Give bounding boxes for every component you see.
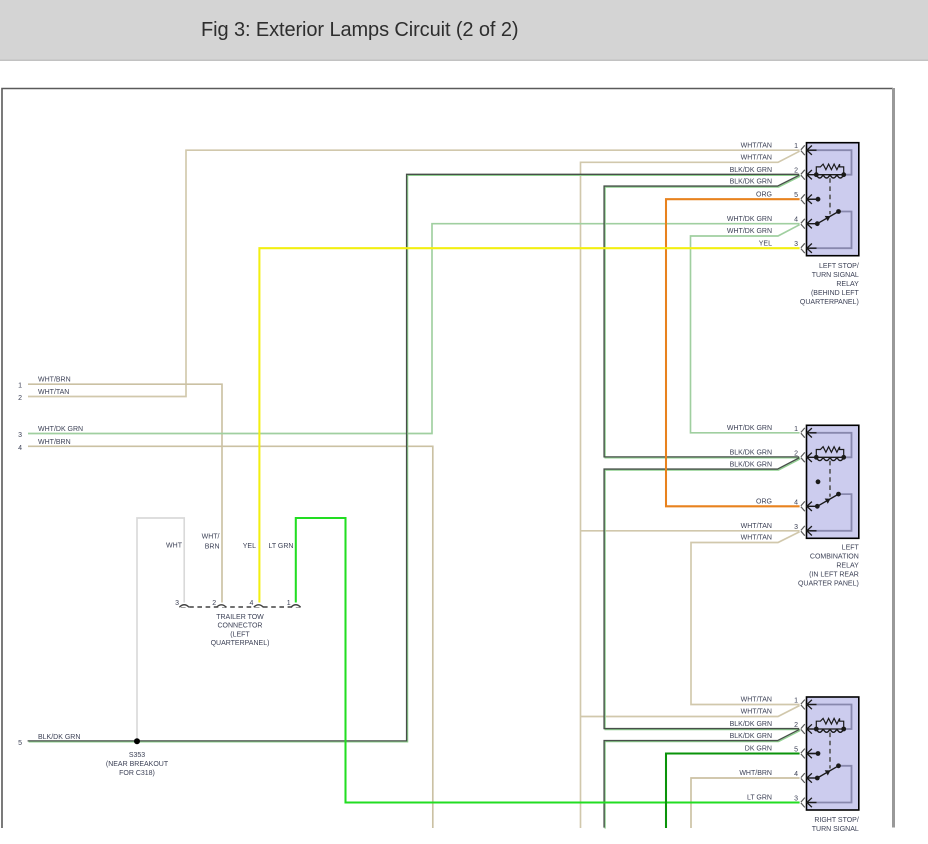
relay K1 LEFT STOP/TURN SIGNAL RELAY <box>807 143 859 256</box>
svg-text:WHT/TAN: WHT/TAN <box>741 535 772 542</box>
svg-text:1: 1 <box>794 143 798 150</box>
wire BLK/DK GRN left pin5 S353 to K1 pin2 <box>29 175 801 742</box>
svg-text:BRN: BRN <box>205 544 220 551</box>
svg-text:3: 3 <box>794 524 798 531</box>
pin connector <box>801 526 805 536</box>
svg-text:WHT/: WHT/ <box>202 534 220 541</box>
wire relay internal switch to pin3 <box>810 494 852 531</box>
svg-text:BLK/DK GRN: BLK/DK GRN <box>730 450 772 457</box>
svg-text:4: 4 <box>794 217 798 224</box>
svg-text:(IN LEFT REAR: (IN LEFT REAR <box>809 572 859 579</box>
svg-text:QUARTERPANEL): QUARTERPANEL) <box>800 299 859 306</box>
wire WHT/TAN bus to K2 pin3 <box>581 530 800 532</box>
wire relay internal pin1 to coil <box>810 705 852 730</box>
svg-text:4: 4 <box>249 600 253 607</box>
svg-text:QUARTERPANEL): QUARTERPANEL) <box>211 640 270 647</box>
pin connector <box>801 452 805 462</box>
svg-text:ORG: ORG <box>756 499 772 506</box>
svg-text:COMBINATION: COMBINATION <box>810 554 859 561</box>
svg-text:WHT/DK GRN: WHT/DK GRN <box>727 228 772 235</box>
svg-text:1: 1 <box>287 600 291 607</box>
relay NC contact dot <box>816 479 821 484</box>
pin connector <box>801 243 805 253</box>
svg-text:1: 1 <box>794 698 798 705</box>
wire WHT/TAN bus to K3 pin1 lower <box>581 706 800 717</box>
svg-text:2: 2 <box>212 600 216 607</box>
svg-text:TRAILER TOW: TRAILER TOW <box>216 614 264 621</box>
svg-text:YEL: YEL <box>243 543 256 550</box>
wire WHT/BRN left pin1 to trailer tow pin2 <box>28 384 222 602</box>
wire relay internal pin1 to coil <box>810 150 852 175</box>
relay coil <box>816 174 843 176</box>
relay K3 RIGHT STOP/TURN SIGNAL RELAY <box>807 697 859 810</box>
pin connector <box>801 219 805 229</box>
svg-text:3: 3 <box>794 241 798 248</box>
svg-text:5: 5 <box>794 192 798 199</box>
relay actuator dashed link <box>829 461 831 497</box>
wire relay internal pin1 to coil <box>810 433 852 458</box>
wire BLK/DK GRN K1 pin2 to K2 pin2 <box>605 176 800 458</box>
svg-text:(NEAR BREAKOUT: (NEAR BREAKOUT <box>106 761 169 768</box>
svg-text:BLK/DK GRN: BLK/DK GRN <box>730 179 772 186</box>
relay coil <box>816 728 843 730</box>
connector trailer tow dashed line <box>181 606 301 608</box>
svg-text:FOR C318): FOR C318) <box>119 770 155 777</box>
svg-text:WHT/DK GRN: WHT/DK GRN <box>727 425 772 432</box>
svg-text:WHT/TAN: WHT/TAN <box>741 697 772 704</box>
svg-text:4: 4 <box>794 771 798 778</box>
svg-text:RELAY: RELAY <box>836 281 859 288</box>
svg-text:ORG: ORG <box>756 191 772 198</box>
wire WHT/BRN left pin4 off-page <box>28 446 433 828</box>
wire LT GRN trailer tow pin1 to K3 pin3 <box>296 518 800 803</box>
wire WHT/BRN off-page to K3 pin4 <box>691 778 800 828</box>
relay NC contact dot <box>816 197 821 202</box>
trailer tow pin 3 <box>179 605 189 607</box>
pin connector <box>801 773 805 783</box>
svg-text:WHT/TAN: WHT/TAN <box>741 709 772 716</box>
svg-text:3: 3 <box>18 432 22 439</box>
svg-text:(BEHIND LEFT: (BEHIND LEFT <box>811 290 860 297</box>
relay switch <box>815 504 820 509</box>
svg-text:S353: S353 <box>129 752 145 759</box>
wire WHT trailer tow pin3 to S353 <box>137 518 184 741</box>
relay actuator dashed link <box>829 178 831 214</box>
svg-text:QUARTER PANEL): QUARTER PANEL) <box>798 581 859 588</box>
svg-text:WHT/TAN: WHT/TAN <box>741 523 772 530</box>
svg-text:TURN SIGNAL: TURN SIGNAL <box>812 272 859 279</box>
pin connector <box>801 428 805 438</box>
svg-text:BLK/DK GRN: BLK/DK GRN <box>38 734 80 741</box>
pin connector <box>801 749 805 759</box>
wire YEL trailer tow pin4 to K1 pin3 <box>259 248 799 602</box>
svg-text:WHT/TAN: WHT/TAN <box>741 155 772 162</box>
pin connector <box>801 194 805 204</box>
svg-text:BLK/DK GRN: BLK/DK GRN <box>730 721 772 728</box>
relay actuator dashed link <box>829 733 831 769</box>
svg-text:1: 1 <box>18 383 22 390</box>
svg-text:2: 2 <box>794 450 798 457</box>
svg-text:BLK/DK GRN: BLK/DK GRN <box>730 167 772 174</box>
svg-text:WHT/BRN: WHT/BRN <box>38 377 71 384</box>
svg-text:1: 1 <box>794 426 798 433</box>
wire relay internal switch to pin3 <box>810 766 852 803</box>
svg-text:WHT/TAN: WHT/TAN <box>38 389 69 396</box>
relay NC contact dot <box>816 751 821 756</box>
svg-text:4: 4 <box>18 445 22 452</box>
pin connector <box>801 501 805 511</box>
wire WHT/DK GRN left pin3 to K1 pin4 <box>28 224 800 434</box>
pin connector <box>801 700 805 710</box>
svg-text:CONNECTOR: CONNECTOR <box>218 623 263 630</box>
wire BLK/DK GRN K3 pin2 off-page <box>605 731 800 829</box>
svg-text:LT GRN: LT GRN <box>268 543 293 550</box>
svg-text:5: 5 <box>18 740 22 747</box>
relay switch <box>815 776 820 781</box>
svg-text:WHT/BRN: WHT/BRN <box>38 439 71 446</box>
splice S353 <box>134 738 140 744</box>
wire DK GRN off-page to K3 pin5 <box>666 754 800 829</box>
pin connector <box>801 145 805 155</box>
svg-text:3: 3 <box>794 796 798 803</box>
wire WHT/TAN K2 pin3 lower to K3 pin1 upper <box>691 532 800 705</box>
svg-text:YEL: YEL <box>759 240 772 247</box>
svg-text:TURN SIGNAL: TURN SIGNAL <box>812 826 859 833</box>
trailer tow pin 2 <box>217 605 227 607</box>
relay switch <box>815 221 820 226</box>
svg-text:RELAY: RELAY <box>836 563 859 570</box>
svg-text:2: 2 <box>794 168 798 175</box>
svg-text:5: 5 <box>794 747 798 754</box>
svg-text:WHT/BRN: WHT/BRN <box>739 770 772 777</box>
svg-text:BLK/DK GRN: BLK/DK GRN <box>730 462 772 469</box>
relay coil <box>816 456 843 458</box>
wire WHT/TAN left pin2 to K1 pin1 <box>28 150 800 396</box>
relay K2 LEFT COMBINATION RELAY <box>807 425 859 538</box>
svg-text:(LEFT: (LEFT <box>230 631 250 638</box>
svg-text:RIGHT STOP/: RIGHT STOP/ <box>814 817 859 824</box>
wire ORG K1 pin5 to K2 pin4 <box>666 199 800 506</box>
svg-text:BLK/DK GRN: BLK/DK GRN <box>730 733 772 740</box>
pin connector <box>801 170 805 180</box>
svg-text:LT GRN: LT GRN <box>747 795 772 802</box>
wire WHT/DK GRN K1 pin4 to K2 pin1 <box>691 225 800 433</box>
svg-text:2: 2 <box>794 722 798 729</box>
svg-text:LEFT STOP/: LEFT STOP/ <box>819 263 859 270</box>
header bar <box>0 0 928 61</box>
trailer tow pin 1 <box>291 605 301 607</box>
svg-text:WHT: WHT <box>166 543 183 550</box>
wire BLK/DK GRN K2 pin2 to K3 pin2 <box>605 459 800 730</box>
svg-text:Fig 3: Exterior Lamps Circuit: Fig 3: Exterior Lamps Circuit (2 of 2) <box>201 19 518 41</box>
svg-text:WHT/DK GRN: WHT/DK GRN <box>727 216 772 223</box>
svg-text:4: 4 <box>794 499 798 506</box>
svg-text:2: 2 <box>18 395 22 402</box>
svg-text:WHT/DK GRN: WHT/DK GRN <box>38 426 83 433</box>
trailer tow pin 4 <box>254 605 264 607</box>
svg-text:3: 3 <box>175 600 179 607</box>
svg-text:WHT/TAN: WHT/TAN <box>741 142 772 149</box>
wire relay internal switch to pin3 <box>810 212 852 249</box>
svg-text:LEFT: LEFT <box>842 545 860 552</box>
wire WHT/TAN K1 pin1 to bus x580 <box>581 151 800 828</box>
svg-text:DK GRN: DK GRN <box>745 746 772 753</box>
pin connector <box>801 798 805 808</box>
pin connector <box>801 724 805 734</box>
